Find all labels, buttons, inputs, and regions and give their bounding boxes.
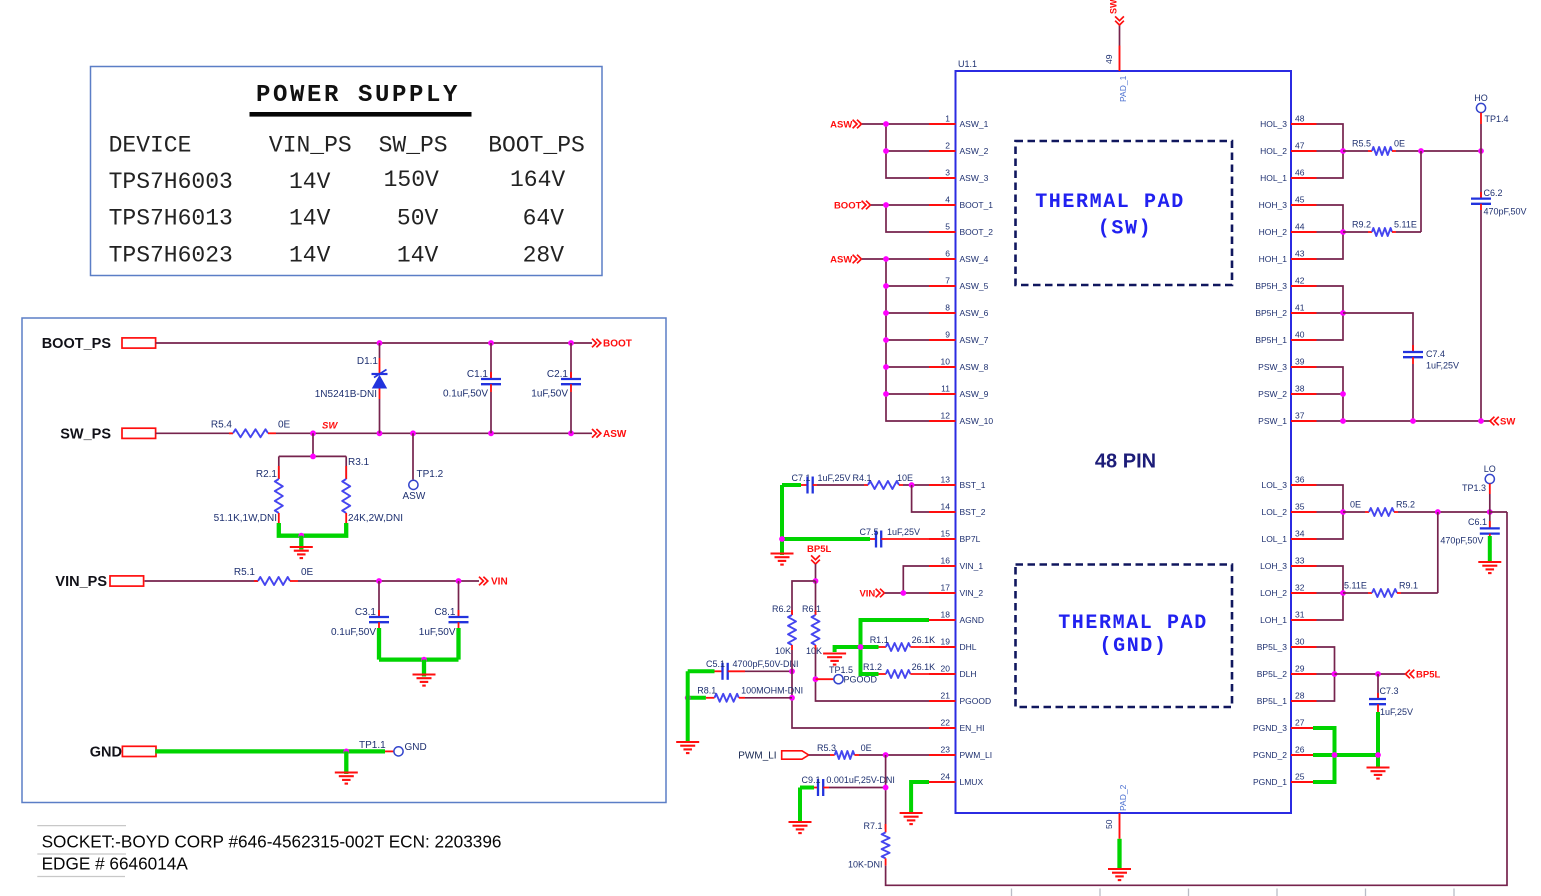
- svg-text:PGND_2: PGND_2: [1253, 750, 1287, 760]
- pin 16 VIN_1: [929, 556, 983, 572]
- svg-text:14: 14: [941, 502, 951, 512]
- pin 45 HOH_3: [1259, 195, 1317, 211]
- svg-text:26.1K: 26.1K: [912, 662, 936, 672]
- svg-text:R5.1: R5.1: [234, 567, 256, 578]
- pin 30 BP5L_3: [1257, 637, 1317, 653]
- pin 12 ASW_10: [929, 411, 993, 427]
- svg-text:24K,2W,DNI: 24K,2W,DNI: [348, 513, 403, 524]
- capacitor C2.1 1uF,50V: [561, 343, 581, 433]
- label LO: [1484, 464, 1496, 474]
- label 470pF,50V C6.1: [1440, 536, 1483, 546]
- node AGND/DHL green junction: [858, 644, 864, 650]
- svg-text:28: 28: [1295, 691, 1305, 701]
- table: POWER SUPPLY box: [91, 67, 603, 276]
- wire caps ground bar (green): [379, 657, 459, 661]
- svg-text:LMUX: LMUX: [960, 777, 984, 787]
- pin 39 PSW_3: [1258, 357, 1316, 373]
- pin 8 ASW_6: [929, 303, 989, 319]
- svg-text:LOL_1: LOL_1: [1261, 534, 1287, 544]
- svg-text:PGND_3: PGND_3: [1253, 723, 1287, 733]
- svg-text:BOOT_PS: BOOT_PS: [488, 133, 585, 159]
- svg-text:ASW_3: ASW_3: [960, 173, 989, 183]
- ground C6.1: [1478, 562, 1501, 573]
- resistor R5.5 0E: [1343, 147, 1481, 155]
- svg-text:150V: 150V: [384, 167, 439, 193]
- table title underline: [250, 112, 472, 117]
- label R2.1: [256, 469, 278, 480]
- svg-text:R5.3: R5.3: [817, 743, 836, 753]
- svg-text:10E: 10E: [897, 473, 913, 483]
- capacitor C6.2 470pF,50V: [1471, 151, 1491, 421]
- svg-text:40: 40: [1295, 330, 1305, 340]
- svg-text:GND: GND: [405, 742, 427, 753]
- label 0.1uF,50V C3.1: [331, 627, 376, 638]
- capacitor C7.4 1uF,25V: [1403, 345, 1423, 421]
- wire VIN_2: [885, 592, 929, 594]
- label TP1.2: [417, 469, 444, 480]
- label C6.2: [1484, 188, 1503, 198]
- port GND: [90, 744, 156, 760]
- port PWM_LI input: [738, 751, 808, 762]
- svg-text:POWER SUPPLY: POWER SUPPLY: [256, 82, 460, 109]
- wire R9.1 up to LO net: [1437, 512, 1439, 593]
- svg-text:23: 23: [941, 745, 951, 755]
- svg-text:5.11E: 5.11E: [1394, 220, 1417, 230]
- svg-text:50V: 50V: [397, 206, 439, 232]
- label R3.1: [348, 457, 370, 468]
- port BOOT_PS: [42, 336, 156, 352]
- svg-text:46: 46: [1295, 168, 1305, 178]
- node PSW bus junction: [1340, 391, 1346, 397]
- node GND junction: [343, 749, 349, 755]
- pin 21 PGOOD: [929, 691, 991, 707]
- svg-text:R1.2: R1.2: [863, 662, 882, 672]
- svg-text:1uF,25V: 1uF,25V: [818, 473, 851, 483]
- svg-text:BP5L_2: BP5L_2: [1257, 669, 1288, 679]
- label C7.5: [860, 527, 879, 537]
- svg-text:12: 12: [941, 411, 951, 421]
- svg-text:1: 1: [945, 114, 950, 124]
- svg-text:LOL_2: LOL_2: [1261, 507, 1287, 517]
- label 1uF,25V C7.1: [818, 473, 851, 483]
- pin 9 ASW_7: [929, 330, 989, 346]
- svg-text:C5.1: C5.1: [706, 659, 725, 669]
- label R5.5: [1352, 139, 1371, 149]
- capacitor C5.1 4700pF,50V-DNI: [688, 663, 792, 680]
- pin 3 ASW_3: [929, 168, 989, 184]
- svg-text:ASW: ASW: [403, 491, 426, 502]
- pin 20 DLH: [929, 664, 977, 680]
- svg-text:R2.1: R2.1: [256, 469, 278, 480]
- wire GND ground stem: [344, 751, 348, 774]
- node BP5L bus junction: [1332, 671, 1338, 677]
- ground C9.1: [789, 822, 812, 833]
- svg-text:C6.2: C6.2: [1484, 188, 1503, 198]
- svg-text:VIN: VIN: [491, 577, 508, 588]
- net SW top connector: [1109, 0, 1124, 46]
- svg-text:LOH_3: LOH_3: [1260, 561, 1287, 571]
- ground PGND: [1367, 768, 1390, 779]
- svg-text:1uF,25V: 1uF,25V: [887, 527, 920, 537]
- svg-text:1uF,50V: 1uF,50V: [531, 389, 568, 400]
- table row TPS7H6013: [109, 206, 565, 232]
- pin 25 PGND_1: [1253, 772, 1317, 788]
- svg-text:1N5241B-DNI: 1N5241B-DNI: [315, 389, 377, 400]
- wire ASW bus pins 6-12: [862, 259, 929, 421]
- label 26.1K R1.2: [912, 662, 936, 672]
- svg-text:14V: 14V: [289, 243, 331, 269]
- svg-text:2: 2: [945, 141, 950, 151]
- label 4700pF,50V-DNI: [733, 659, 799, 669]
- wire PGND green pins 27-25: [1313, 728, 1378, 782]
- left schematic border box: [22, 318, 666, 803]
- node BP7L green junction: [779, 536, 785, 542]
- pin 50 PAD_2: [1104, 784, 1128, 838]
- diode D1.1 1N5241B-DNI zener: [372, 343, 388, 433]
- svg-text:R6.2: R6.2: [772, 604, 791, 614]
- svg-text:50: 50: [1104, 819, 1114, 829]
- svg-text:LOL_3: LOL_3: [1261, 480, 1287, 490]
- svg-text:10K-DNI: 10K-DNI: [848, 860, 883, 870]
- wire BP7L green to C7.5: [782, 537, 870, 541]
- node VIN junctions: [376, 578, 461, 584]
- svg-text:16: 16: [941, 556, 951, 566]
- svg-text:PAD_2: PAD_2: [1118, 784, 1128, 811]
- svg-text:BP5H_3: BP5H_3: [1255, 281, 1287, 291]
- svg-text:14V: 14V: [397, 243, 439, 269]
- svg-text:21: 21: [941, 691, 951, 701]
- svg-text:26: 26: [1295, 745, 1305, 755]
- svg-text:7: 7: [945, 276, 950, 286]
- pin 2 ASW_2: [929, 141, 989, 157]
- svg-text:PSW_2: PSW_2: [1258, 389, 1287, 399]
- op-amp U1.1 IC body 48 PIN: [956, 71, 1292, 813]
- label R8.1: [697, 686, 716, 696]
- svg-text:LOH_1: LOH_1: [1260, 615, 1287, 625]
- svg-text:49: 49: [1104, 54, 1114, 64]
- wire DHL green to ground spur: [835, 647, 861, 652]
- svg-text:ASW_6: ASW_6: [960, 308, 989, 318]
- node ASW bus junctions 6-11: [883, 256, 889, 397]
- table row TPS7H6003: [109, 167, 566, 195]
- svg-text:PSW_1: PSW_1: [1258, 416, 1287, 426]
- net BP5L top connector: [807, 544, 831, 564]
- pin 11 ASW_9: [929, 384, 989, 400]
- label C6.1: [1468, 517, 1487, 527]
- svg-text:HOL_2: HOL_2: [1260, 146, 1287, 156]
- wire HOL bus pins 48-46: [1317, 124, 1344, 178]
- svg-text:5.11E: 5.11E: [1344, 581, 1367, 591]
- label C5.1: [706, 659, 725, 669]
- label 0.1uF,50V C1.1: [443, 389, 488, 400]
- svg-text:PAD_1: PAD_1: [1118, 75, 1128, 102]
- svg-text:14V: 14V: [289, 206, 331, 232]
- svg-text:BOOT: BOOT: [603, 339, 632, 350]
- test point TP1.5 PGOOD: [816, 675, 844, 684]
- capacitor C8.1 1uF,50V: [449, 581, 469, 660]
- wire BST_2 branch: [912, 485, 929, 512]
- wire VIN_1 branch: [903, 566, 929, 593]
- wire PWM junction down: [885, 755, 887, 829]
- svg-text:HOL_3: HOL_3: [1260, 119, 1287, 129]
- svg-text:10: 10: [941, 357, 951, 367]
- svg-text:26.1K: 26.1K: [912, 635, 936, 645]
- svg-text:R1.1: R1.1: [870, 635, 889, 645]
- label 24K,2W,DNI: [348, 513, 403, 524]
- svg-text:PGOOD: PGOOD: [844, 675, 878, 685]
- note EDGE: [42, 854, 189, 874]
- node ASW bus junctions: [883, 121, 889, 154]
- label D1.1: [357, 356, 379, 367]
- capacitor C6.1 470pF,50V: [1480, 512, 1500, 538]
- resistor R6.1 10K: [812, 581, 820, 650]
- pin 28 BP5L_1: [1257, 691, 1317, 707]
- pin 23 PWM_LI: [929, 745, 992, 761]
- node PGND junctions: [1332, 752, 1381, 758]
- label C8.1: [434, 607, 456, 618]
- label 10E: [897, 473, 913, 483]
- pin 15 BP7L: [929, 529, 981, 545]
- label U1.1: [958, 59, 977, 69]
- wire LO to right rail: [1490, 511, 1507, 513]
- svg-text:18: 18: [941, 610, 951, 620]
- svg-text:3: 3: [945, 168, 950, 178]
- node LO junctions: [1435, 509, 1493, 515]
- svg-text:19: 19: [941, 637, 951, 647]
- svg-text:LO: LO: [1484, 464, 1496, 474]
- node TP1.5 junction: [813, 676, 819, 682]
- label 5.11E R9.2: [1394, 220, 1417, 230]
- svg-text:ASW_5: ASW_5: [960, 281, 989, 291]
- svg-text:BP5L: BP5L: [1416, 670, 1440, 681]
- node SW net junctions: [1340, 418, 1484, 424]
- label PGOOD at TP1.5: [844, 675, 878, 685]
- svg-text:33: 33: [1295, 556, 1305, 566]
- net ASW source for ASW_1..3: [830, 120, 861, 131]
- resistor R9.2 5.11E: [1343, 228, 1421, 236]
- node C5.1 junction: [789, 668, 795, 674]
- svg-text:41: 41: [1295, 303, 1305, 313]
- svg-text:R7.1: R7.1: [863, 821, 882, 831]
- ground C7.1/C7.5: [771, 539, 794, 565]
- pin 31 LOH_1: [1260, 610, 1316, 626]
- label THERMAL PAD (GND): [1058, 612, 1208, 658]
- svg-text:BOOT: BOOT: [834, 201, 862, 212]
- svg-text:SW: SW: [1109, 0, 1119, 14]
- svg-text:1uF,50V: 1uF,50V: [419, 627, 456, 638]
- wire AGND green: [861, 620, 930, 647]
- svg-text:44: 44: [1295, 222, 1305, 232]
- svg-text:THERMAL PAD: THERMAL PAD: [1035, 191, 1185, 214]
- table row TPS7H6023: [109, 243, 565, 269]
- svg-text:64V: 64V: [523, 206, 565, 232]
- svg-text:(GND): (GND): [1099, 635, 1167, 658]
- svg-text:ASW_9: ASW_9: [960, 389, 989, 399]
- svg-text:R5.5: R5.5: [1352, 139, 1371, 149]
- wire C7.3 green to PGND: [1376, 712, 1380, 768]
- svg-text:HOH_3: HOH_3: [1259, 200, 1288, 210]
- node R8.1 junction right: [789, 695, 795, 701]
- pin 24 LMUX: [929, 772, 983, 788]
- label R9.1: [1399, 581, 1418, 591]
- svg-text:39: 39: [1295, 357, 1305, 367]
- label 48 PIN: [1095, 451, 1156, 473]
- svg-text:C7.5: C7.5: [860, 527, 879, 537]
- svg-text:48: 48: [1295, 114, 1305, 124]
- svg-text:C3.1: C3.1: [355, 607, 377, 618]
- svg-text:D1.1: D1.1: [357, 356, 379, 367]
- wire BOOT net: [156, 342, 592, 344]
- node caps ground junction: [421, 657, 427, 663]
- label 26.1K R1.1: [912, 635, 936, 645]
- svg-text:14V: 14V: [289, 169, 331, 195]
- pin 33 LOH_3: [1260, 556, 1316, 572]
- node BOOT junctions: [377, 340, 574, 346]
- label C2.1: [547, 369, 569, 380]
- label R1.2: [863, 662, 882, 672]
- svg-text:BP5H_2: BP5H_2: [1255, 308, 1287, 318]
- svg-text:C7.1: C7.1: [792, 473, 811, 483]
- svg-text:470pF,50V: 470pF,50V: [1440, 536, 1483, 546]
- svg-text:24: 24: [941, 772, 951, 782]
- svg-text:5: 5: [945, 222, 950, 232]
- label C7.3: [1380, 686, 1399, 696]
- pin 43 HOH_1: [1259, 249, 1317, 265]
- svg-text:HOH_1: HOH_1: [1259, 254, 1288, 264]
- resistor R9.1 5.11E: [1343, 589, 1438, 597]
- wire PSW_1 SW net: [1343, 420, 1490, 422]
- node BOOT bus junction: [883, 202, 889, 208]
- svg-text:SW_PS: SW_PS: [60, 426, 111, 442]
- label TP1.3: [1462, 483, 1486, 493]
- svg-text:27: 27: [1295, 718, 1305, 728]
- node ladder top junction: [310, 454, 316, 460]
- svg-text:(SW): (SW): [1098, 218, 1152, 241]
- wire BP5L bus pins 30-28: [1317, 647, 1335, 701]
- wire C6.1 green ground leg: [1488, 536, 1492, 563]
- pin 18 AGND: [929, 610, 984, 626]
- ground LMUX: [900, 813, 923, 824]
- svg-text:R5.2: R5.2: [1396, 500, 1415, 510]
- resistor R5.3 0E: [809, 751, 929, 759]
- svg-text:R9.1: R9.1: [1399, 581, 1418, 591]
- svg-text:ASW_8: ASW_8: [960, 362, 989, 372]
- label 10K-DNI: [848, 860, 883, 870]
- pin 41 BP5H_2: [1255, 303, 1316, 319]
- label 1N5241B-DNI: [315, 389, 377, 400]
- svg-text:HOL_1: HOL_1: [1260, 173, 1287, 183]
- svg-text:HO: HO: [1474, 93, 1488, 103]
- resistor R3.1 24K,2W,DNI: [342, 456, 350, 523]
- ground GND row: [335, 773, 358, 784]
- label 0E R5.2: [1350, 500, 1361, 510]
- resistor R1.2 26.1K: [879, 670, 930, 678]
- label 51.1K,1W,DNI: [214, 513, 277, 524]
- label HO: [1474, 93, 1488, 103]
- wire LMUX green: [911, 782, 929, 814]
- svg-text:36: 36: [1295, 475, 1305, 485]
- label C3.1: [355, 607, 377, 618]
- node C9.1 junction: [883, 785, 889, 791]
- svg-text:164V: 164V: [510, 167, 565, 193]
- net VIN source: [859, 589, 884, 600]
- wire VIN net: [298, 580, 479, 582]
- svg-text:30: 30: [1295, 637, 1305, 647]
- pin 42 BP5H_3: [1255, 276, 1316, 292]
- pin 17 VIN_2: [929, 583, 983, 599]
- wire PAD_2 ground (green): [1117, 839, 1121, 870]
- svg-text:51.1K,1W,DNI: 51.1K,1W,DNI: [214, 513, 277, 524]
- grid tick marks bottom: [1012, 889, 1455, 896]
- net ASW off-page connector: [592, 429, 627, 440]
- wire BOOT bus pins 4-5: [871, 205, 929, 232]
- svg-text:THERMAL PAD: THERMAL PAD: [1058, 612, 1208, 635]
- resistor R8.1 100MOHM-DNI: [688, 694, 792, 702]
- svg-text:10K: 10K: [775, 646, 791, 656]
- wire LOH bus pins 33-31: [1317, 566, 1344, 620]
- wire GND net (green): [155, 749, 385, 753]
- label R1.1: [870, 635, 889, 645]
- label 470pF,50V C6.2: [1484, 207, 1527, 217]
- svg-text:6: 6: [945, 249, 950, 259]
- svg-text:0E: 0E: [1350, 500, 1361, 510]
- svg-text:ASW_4: ASW_4: [960, 254, 989, 264]
- svg-text:4700pF,50V-DNI: 4700pF,50V-DNI: [733, 659, 799, 669]
- pin 29 BP5L_2: [1257, 664, 1317, 680]
- svg-text:EDGE # 6646014A: EDGE # 6646014A: [42, 854, 189, 874]
- svg-text:R6.1: R6.1: [802, 604, 821, 614]
- svg-text:0E: 0E: [301, 567, 314, 578]
- label C7.1: [792, 473, 811, 483]
- net label SW: [322, 420, 338, 431]
- svg-text:BST_2: BST_2: [960, 507, 986, 517]
- wire VIN_PS to R5.1: [145, 580, 258, 582]
- svg-text:1uF,25V: 1uF,25V: [1380, 707, 1413, 717]
- svg-text:31: 31: [1295, 610, 1305, 620]
- label R6.2: [772, 604, 791, 614]
- label R6.1: [802, 604, 821, 614]
- ground VIN caps: [413, 675, 436, 686]
- pin 19 DHL: [929, 637, 977, 653]
- wire caps ground stem: [422, 660, 426, 677]
- test point TP1.4 HO: [1476, 103, 1485, 151]
- thermal pad GND dashed box: [1016, 565, 1233, 708]
- svg-text:15: 15: [941, 529, 951, 539]
- svg-text:R3.1: R3.1: [348, 457, 370, 468]
- wire BP5H bus pins 42-40: [1317, 286, 1344, 340]
- label 0E R5.3: [861, 743, 872, 753]
- resistor R1.1 26.1K: [879, 643, 930, 651]
- svg-text:BOOT_1: BOOT_1: [960, 200, 994, 210]
- pin 6 ASW_4: [929, 249, 989, 265]
- svg-text:BP5H_1: BP5H_1: [1255, 335, 1287, 345]
- label 1uF,25V C7.4: [1426, 361, 1459, 371]
- label 0E R5.5: [1394, 139, 1405, 149]
- wire SW to divider ladder: [312, 433, 314, 456]
- pin 27 PGND_3: [1253, 718, 1317, 734]
- pin 35 LOL_2: [1261, 502, 1316, 518]
- svg-text:TP1.4: TP1.4: [1485, 114, 1509, 124]
- svg-text:VIN_2: VIN_2: [960, 588, 984, 598]
- label TP1.5: [829, 665, 853, 675]
- pin 47 HOL_2: [1260, 141, 1316, 157]
- svg-text:LOH_2: LOH_2: [1260, 588, 1287, 598]
- svg-text:R5.4: R5.4: [211, 419, 233, 430]
- pin 5 BOOT_2: [929, 222, 993, 238]
- label R5.3: [817, 743, 836, 753]
- svg-text:TP1.3: TP1.3: [1462, 483, 1486, 493]
- pin 36 LOL_3: [1261, 475, 1316, 491]
